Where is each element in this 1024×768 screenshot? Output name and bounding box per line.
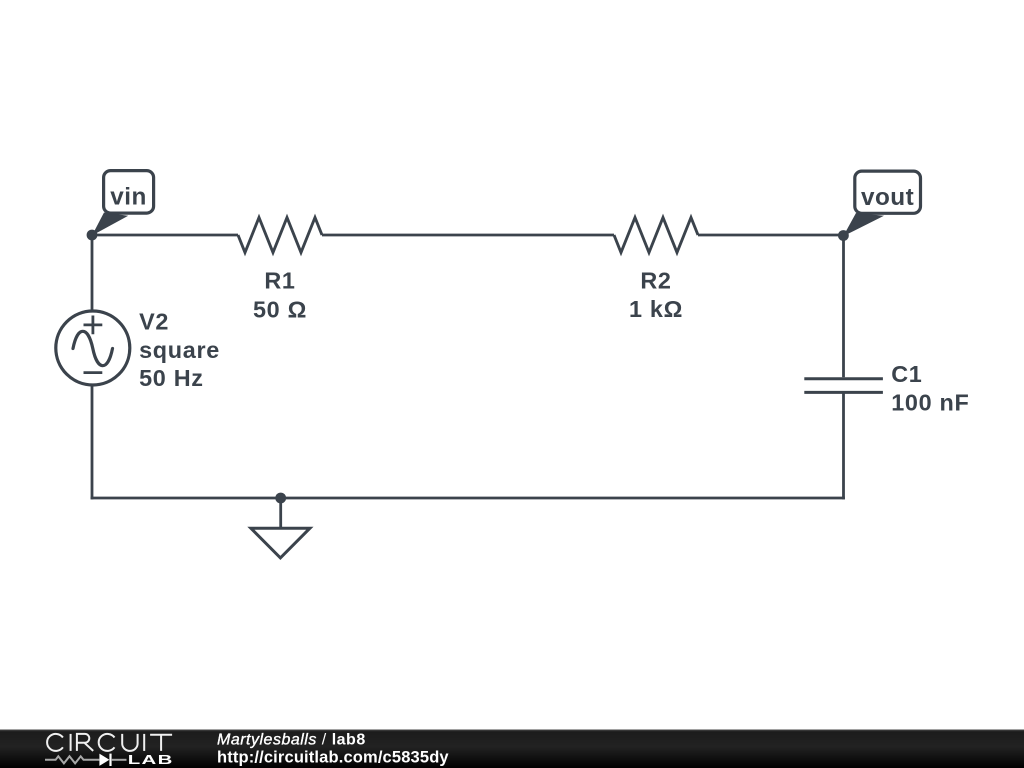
svg-text:Martylesballs / lab8: Martylesballs / lab8: [217, 731, 366, 748]
footer bar: [0, 730, 1024, 768]
wire R2 to vout node: [698, 234, 844, 237]
svg-text:50 Ω: 50 Ω: [253, 297, 307, 323]
net flag vout: [843, 171, 920, 236]
wire ground rail: [91, 497, 845, 500]
svg-text:100 nF: 100 nF: [891, 390, 969, 416]
resistor R2: [614, 218, 698, 323]
svg-text:LAB: LAB: [128, 753, 174, 767]
voltage source V2: [56, 309, 220, 391]
ground: [251, 498, 310, 558]
node junction dot (ground rail): [275, 493, 286, 504]
svg-text:R2: R2: [640, 267, 671, 293]
svg-text:50 Hz: 50 Hz: [139, 365, 204, 391]
wire vin node to V2 top: [91, 234, 94, 312]
resistor R1: [238, 218, 322, 323]
node vin: [87, 230, 98, 241]
svg-text:R1: R1: [264, 267, 295, 293]
CircuitLab logo CIRCUIT wordmark: [47, 734, 172, 751]
wire vout node to C1 top plate: [842, 234, 845, 378]
node vout: [838, 230, 849, 241]
capacitor C1: [804, 361, 969, 416]
svg-text:C1: C1: [891, 361, 922, 387]
svg-text:1 kΩ: 1 kΩ: [629, 296, 683, 322]
svg-text:vout: vout: [861, 184, 914, 211]
CircuitLab logo resistor-diode glyph: [45, 754, 127, 766]
wire V2 bottom to ground rail: [91, 385, 94, 499]
svg-text:vin: vin: [110, 184, 147, 211]
wire vin node to R1 left: [91, 234, 238, 237]
wire R1 to R2: [322, 234, 614, 237]
svg-text:V2: V2: [139, 309, 169, 335]
wire C1 bottom plate to ground rail: [842, 392, 845, 499]
svg-text:square: square: [139, 337, 220, 363]
net flag vin: [92, 171, 154, 236]
svg-text:http://circuitlab.com/c5835dy: http://circuitlab.com/c5835dy: [217, 748, 449, 766]
